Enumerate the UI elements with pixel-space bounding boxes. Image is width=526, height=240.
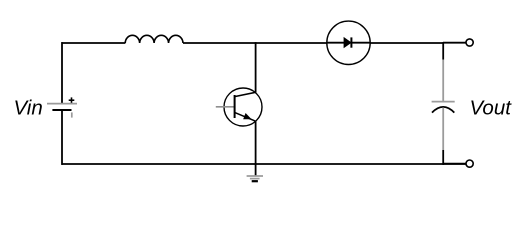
battery V1 plus sign: [69, 97, 75, 103]
wire left vertical lower (battery - to bottom wire): [61, 110, 63, 165]
wire diode to output node: [370, 42, 444, 44]
wire top-left horizontal (Vin node to inductor): [62, 42, 126, 44]
diode D1 cathode bar: [350, 37, 352, 47]
capacitor C1 bottom lead: [442, 108, 444, 151]
wire right vertical upper black (output node to C1): [442, 42, 444, 59]
transistor Q1 emitter line: [235, 112, 256, 121]
wire output node to top terminal: [443, 42, 466, 44]
capacitor C1 top plate: [432, 101, 455, 103]
ground bar 2: [250, 178, 260, 180]
battery V1 minus tick: [71, 112, 73, 117]
diode D1 anode lead inside circle: [327, 42, 344, 44]
wire middle vertical upper (top wire to Q1 collector): [255, 42, 257, 92]
terminal bottom-right: [466, 160, 473, 167]
ground stub wire: [255, 164, 257, 176]
diode D1 circle: [327, 21, 370, 64]
wire middle vertical lower (Q1 emitter to bottom wire): [255, 121, 257, 165]
ground bar 1: [247, 175, 263, 177]
diode D1 triangle: [344, 38, 351, 48]
battery V1 negative plate (short): [52, 109, 71, 111]
transistor Q1 collector line: [235, 92, 256, 96]
terminal top-right: [466, 39, 473, 46]
wire right vertical lower black (C1 to bottom wire): [442, 150, 444, 165]
transistor Q1 circle: [224, 88, 262, 126]
transistor Q1 base bar: [234, 95, 236, 118]
wire bottom horizontal: [62, 163, 467, 165]
inductor L1: [125, 35, 183, 43]
diode D1 cathode lead inside circle: [351, 42, 370, 44]
battery V1 positive plate (long): [47, 103, 77, 105]
transistor Q1 emitter arrow: [244, 114, 251, 119]
transistor Q1 base lead: [216, 106, 235, 108]
wire left vertical upper (top wire to battery +): [61, 42, 63, 103]
wire inductor to diode: [183, 42, 327, 44]
svg-text:Vin: Vin: [14, 97, 43, 120]
wire bottom node to bottom terminal: [443, 163, 466, 165]
ground bar 3: [252, 180, 258, 182]
capacitor C1 top lead: [442, 60, 444, 102]
capacitor C1 curved plate: [432, 107, 454, 113]
svg-text:Vout: Vout: [470, 97, 513, 120]
